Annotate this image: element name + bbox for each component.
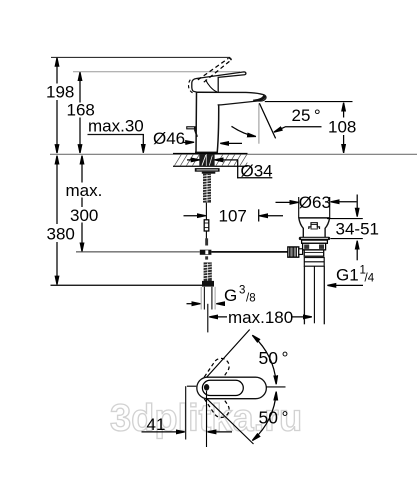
svg-text:41: 41 xyxy=(147,415,166,434)
faucet body xyxy=(195,92,266,154)
plan view: lever swing positions (dashed) xyxy=(200,355,232,392)
flexible hoses xyxy=(201,287,215,310)
dimension max.180 xyxy=(209,308,311,327)
dimension 41 xyxy=(142,415,233,434)
threaded rod below shank xyxy=(203,174,211,203)
countertop surface line xyxy=(50,153,417,155)
label G3/8 with leader xyxy=(187,285,256,306)
hose centerline mid xyxy=(205,231,207,245)
plan view: horizontal centerline xyxy=(266,386,285,388)
dimension 34-51 xyxy=(327,195,379,261)
svg-text:34-51: 34-51 xyxy=(336,220,379,239)
water stream 25 degree line xyxy=(259,103,275,138)
plan view: faucet body outline xyxy=(197,377,267,399)
hose connector nut xyxy=(202,281,214,287)
svg-text:300: 300 xyxy=(70,206,98,225)
plan view: left extension tick xyxy=(187,385,196,387)
faucet pop-up rod horizontal linkage xyxy=(76,251,200,253)
svg-text:107: 107 xyxy=(219,207,247,226)
plan view: radial 50 degree lines xyxy=(207,330,250,378)
svg-text:max.: max. xyxy=(66,181,103,200)
dimension 380 xyxy=(47,156,75,285)
label G1 1/4 with leader xyxy=(328,265,375,286)
pop-up rod clamp xyxy=(200,238,212,259)
25 degree arc xyxy=(232,126,256,136)
svg-text:max.30: max.30 xyxy=(88,117,144,136)
hose centerline upper xyxy=(205,203,207,220)
lever swing arc (dashed) xyxy=(189,80,193,93)
dimension 168 xyxy=(67,72,95,153)
spout top line xyxy=(197,92,265,95)
dimension 198 xyxy=(46,58,74,153)
label 25 degrees with leader xyxy=(274,106,322,132)
shank washer nut xyxy=(195,168,220,174)
svg-text:198: 198 xyxy=(46,83,74,102)
svg-text:50 °: 50 ° xyxy=(259,348,289,368)
svg-text:Ø34: Ø34 xyxy=(241,161,273,180)
dimension 380 bottom extension line xyxy=(51,284,203,286)
threaded shank through deck xyxy=(199,154,214,167)
dimension Ø34 xyxy=(187,159,273,180)
svg-text:Ø46: Ø46 xyxy=(153,129,185,148)
lift knob xyxy=(309,223,320,229)
raised lever (dashed phantom) xyxy=(198,58,231,82)
water stream reference line (gray) xyxy=(258,103,260,143)
dimension Ø46 xyxy=(153,129,242,148)
Ø63 extension lines and top edge xyxy=(298,197,300,218)
plan view: 50 degree arcs xyxy=(252,335,276,384)
extension line top of lever at rest (168 ref) xyxy=(73,71,240,73)
dimension Ø63 xyxy=(276,193,357,212)
under flange ring xyxy=(302,240,328,243)
plan view: pivot centerline down xyxy=(206,391,208,447)
spout height extension line xyxy=(265,101,353,103)
svg-text:/4: /4 xyxy=(365,273,375,285)
faucet body base xyxy=(195,152,218,155)
faucet centerline extension below hoses xyxy=(207,304,209,333)
tailpipe xyxy=(303,266,305,324)
label max.30 with underline xyxy=(88,117,144,153)
plan view: left extension line xyxy=(185,386,187,439)
hose nipple xyxy=(204,220,209,231)
dimension 108 xyxy=(328,103,356,153)
aerator tip xyxy=(253,95,265,101)
locknut xyxy=(304,258,324,267)
drain pop-up waste assembly xyxy=(288,197,330,324)
knurled adjuster knob xyxy=(288,247,299,257)
lever inner edge xyxy=(206,80,217,92)
plan view: cartridge pivot dot xyxy=(204,384,209,391)
G3/8 threaded hose ends xyxy=(204,262,212,281)
svg-text:G1: G1 xyxy=(336,266,359,285)
svg-text:108: 108 xyxy=(328,118,356,137)
svg-text:380: 380 xyxy=(47,225,75,244)
svg-text:/8: /8 xyxy=(246,293,256,305)
svg-text:max.180: max.180 xyxy=(228,308,293,327)
lever handle xyxy=(192,72,246,92)
svg-text:25 °: 25 ° xyxy=(292,106,321,125)
lower band xyxy=(304,250,324,256)
mounting deck strip with hatching xyxy=(173,154,248,167)
plan view: lever outline xyxy=(202,380,243,395)
dimension 107 xyxy=(184,207,284,226)
waste body xyxy=(303,243,326,250)
spout tip and underside xyxy=(218,95,266,105)
dimension max.300 xyxy=(66,156,103,251)
pop-up rod knob at faucet xyxy=(186,126,197,137)
extension line top of raised lever (198 ref) xyxy=(51,56,230,58)
svg-text:G: G xyxy=(224,286,237,305)
raised lever tip mark xyxy=(229,58,232,60)
svg-text:50 °: 50 ° xyxy=(259,407,289,427)
svg-text:3: 3 xyxy=(239,285,245,297)
svg-text:Ø63: Ø63 xyxy=(299,193,331,212)
flange xyxy=(299,237,330,240)
drain upper body sides xyxy=(299,219,303,238)
